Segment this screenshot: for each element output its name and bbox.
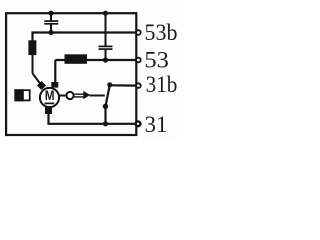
actuator tip line xyxy=(90,95,105,97)
wire R1 top lead xyxy=(31,31,33,40)
choke R1 xyxy=(28,40,36,55)
node C1 / 53b wire xyxy=(48,30,53,35)
switch pivot node xyxy=(103,104,108,109)
terminal 31 xyxy=(136,121,141,126)
node C2 / 53 wire xyxy=(103,57,108,62)
terminal 53 xyxy=(136,58,141,63)
svg-text:53: 53 xyxy=(144,47,169,72)
choke R2 xyxy=(65,54,88,64)
switch contact node xyxy=(107,82,112,87)
wire diagonal to brush xyxy=(33,73,42,85)
svg-text:53b: 53b xyxy=(145,20,178,45)
capacitor C1 plates xyxy=(44,20,58,22)
actuator double line xyxy=(74,93,86,95)
capacitor C1 lead bottom xyxy=(50,24,52,32)
capacitor C2 lead top xyxy=(105,13,107,46)
wire 53b horizontal xyxy=(33,31,139,33)
wire switch lower xyxy=(104,106,106,124)
capacitor C1 lead top xyxy=(50,13,52,20)
brush B2 (top) xyxy=(51,82,58,88)
capacitor C2 lead bottom xyxy=(105,50,107,61)
svg-text:31b: 31b xyxy=(146,72,177,97)
svg-text:31: 31 xyxy=(145,112,168,137)
wire motor to ground xyxy=(49,114,139,124)
node at C1 top on frame xyxy=(48,11,53,16)
actuator arrow xyxy=(83,91,90,99)
housing frame xyxy=(6,13,136,135)
node at C2 top on frame xyxy=(103,11,108,16)
terminal 53b xyxy=(136,30,141,35)
wire 53 horizontal xyxy=(55,59,138,61)
motor underline xyxy=(45,102,55,104)
svg-text:M: M xyxy=(45,87,55,103)
switch blade xyxy=(106,85,110,107)
wire R1 bottom lead xyxy=(32,55,34,73)
capacitor C2 plates xyxy=(99,45,113,47)
node 31 wire / switch xyxy=(103,121,108,126)
wire 53 vertical lead xyxy=(54,60,56,83)
permanent magnet symbol xyxy=(15,90,29,100)
wire 31b horizontal xyxy=(110,84,138,86)
wire motor shaft xyxy=(59,95,66,97)
brush B3 (bottom) xyxy=(45,106,52,114)
cam circle xyxy=(66,92,73,99)
brush B1 (high speed, rotated) xyxy=(37,81,46,90)
motor M armature circle xyxy=(40,88,59,107)
terminal 31b xyxy=(136,83,141,88)
